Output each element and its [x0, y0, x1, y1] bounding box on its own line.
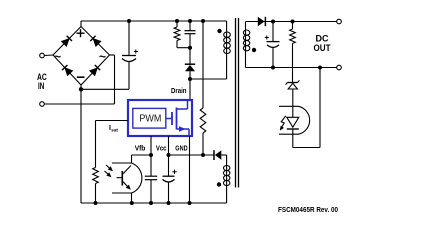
- label I sense: [109, 125, 118, 133]
- wire bridge neg to cap bottom: [81, 88, 129, 90]
- label DC OUT: [314, 34, 331, 54]
- opto transistor body: [112, 155, 142, 203]
- svg-text:PWM: PWM: [139, 112, 161, 124]
- Vcc cap + mark: [172, 170, 176, 174]
- node snubber-C tap: [188, 19, 192, 23]
- bulk cap + mark: [134, 50, 138, 54]
- preload resistor: [290, 22, 296, 83]
- svg-text:~: ~: [99, 50, 106, 64]
- opto photo arrows: [105, 165, 115, 179]
- PWM block: [133, 108, 166, 128]
- node drain: [188, 77, 192, 81]
- opto transistor symbol: [117, 166, 133, 192]
- node output cap tap: [271, 20, 275, 24]
- output rectifier diode: [258, 17, 266, 26]
- node gnd sense: [94, 201, 98, 205]
- node snubber RC join: [188, 46, 192, 50]
- pin Vcc stub: [168, 136, 170, 155]
- wire sense line: [96, 121, 129, 168]
- svg-text:FSCM0465R Rev. 00: FSCM0465R Rev. 00: [278, 207, 338, 214]
- bridge - mark: [77, 76, 85, 78]
- aux diode: [214, 150, 227, 160]
- wire bridge top to rail: [80, 21, 82, 27]
- svg-text:GND: GND: [175, 146, 187, 153]
- snubber resistor: [174, 21, 190, 48]
- wire drain to primary: [190, 78, 227, 80]
- wire secondary bottom rail: [246, 67, 337, 69]
- node gnd opto: [130, 201, 134, 205]
- label GND: [175, 146, 187, 153]
- sense resistor: [93, 168, 99, 204]
- wire top DC bus rail: [81, 20, 227, 22]
- AC input terminal lower: [40, 102, 45, 107]
- wire drain down to switch: [189, 79, 191, 101]
- transformer secondary winding: [243, 22, 249, 68]
- snubber diode: [185, 48, 195, 79]
- node preload tap: [291, 20, 295, 24]
- zener diode: [286, 80, 300, 106]
- secondary polarity dot: [252, 48, 256, 52]
- LED emission arrow: [278, 116, 286, 132]
- pin GND stub: [189, 136, 191, 203]
- bridge ~ mark right: [99, 50, 106, 64]
- DC OUT terminal +: [337, 19, 342, 24]
- capacitor Vcc electrolytic: [163, 155, 175, 203]
- capacitor bulk electrolytic: [122, 21, 136, 89]
- node gnd pin: [188, 201, 192, 205]
- svg-text:OUT: OUT: [314, 43, 331, 53]
- mosfet Q1 sensefet: [166, 101, 189, 137]
- bridge diode upper-left: [61, 36, 72, 47]
- snubber capacitor: [185, 21, 196, 48]
- node gnd Vfb cap: [149, 201, 153, 205]
- node LED return: [318, 66, 322, 70]
- wire primary ground rail: [81, 202, 227, 204]
- aux polarity dot: [217, 182, 221, 186]
- IC U1 outline: [128, 100, 192, 136]
- AC input terminal upper: [40, 53, 53, 58]
- label AC IN: [37, 72, 47, 91]
- opto LED enclosure: [279, 106, 310, 134]
- capacitor Vfb: [145, 155, 157, 203]
- capacitor output electrolytic: [267, 22, 280, 68]
- wire bridge neg to ground: [80, 85, 82, 203]
- node Vcc startup join: [201, 153, 205, 157]
- transformer primary winding: [224, 21, 231, 79]
- startup resistor: [200, 21, 206, 155]
- node output cap bottom: [271, 66, 275, 70]
- node bulk-cap tap: [127, 19, 131, 23]
- wire Vcc run: [169, 154, 215, 156]
- node bridge negative: [79, 87, 83, 91]
- bridge + mark: [77, 29, 85, 37]
- svg-text:DC: DC: [316, 34, 329, 44]
- bridge diode lower-right: [89, 65, 100, 76]
- svg-text:~: ~: [54, 50, 61, 64]
- bridge diode lower-left: [62, 65, 73, 76]
- svg-text:Vfb: Vfb: [135, 146, 146, 153]
- bridge ~ mark left: [54, 50, 61, 64]
- transformer core: [236, 18, 239, 188]
- wire Vfb to opto: [132, 154, 152, 156]
- node snubber-R tap: [175, 19, 179, 23]
- DC OUT terminal -: [337, 65, 342, 70]
- svg-text:sat: sat: [111, 128, 118, 133]
- svg-text:Drain: Drain: [171, 88, 187, 95]
- wire LED return: [293, 68, 320, 148]
- bridge diode upper-right: [90, 36, 101, 47]
- node startup-R tap: [201, 19, 205, 23]
- label Vcc: [156, 146, 167, 153]
- bridge rectifier BR1 diamond: [53, 27, 110, 86]
- label FSCM0465R Rev. 00: [278, 207, 338, 214]
- node gnd Vcc cap: [167, 201, 171, 205]
- output cap + mark: [265, 36, 269, 40]
- wire secondary top rail: [246, 21, 337, 23]
- wire AC lower run: [44, 55, 114, 104]
- transformer aux winding: [224, 155, 230, 203]
- primary polarity dot: [217, 29, 221, 33]
- svg-text:Vcc: Vcc: [156, 146, 167, 153]
- node Vcc: [167, 153, 171, 157]
- label Drain: [171, 88, 187, 95]
- opto LED: [287, 106, 299, 147]
- svg-text:IN: IN: [38, 81, 44, 91]
- pin Vfb stub: [150, 136, 152, 155]
- node Vfb: [149, 153, 153, 157]
- label Vfb: [135, 146, 146, 153]
